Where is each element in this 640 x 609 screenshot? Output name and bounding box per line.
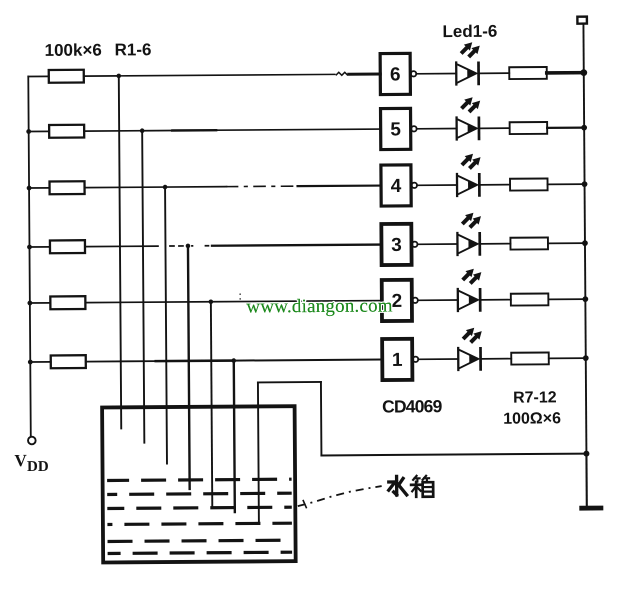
svg-text:V: V <box>14 451 27 470</box>
label gate number 4 <box>391 176 402 197</box>
wire rail to R4 <box>29 246 49 248</box>
tick on leader <box>303 501 306 508</box>
resistor R4 <box>50 240 85 253</box>
inverter U2 output bubble <box>412 298 417 303</box>
wire Led2 to R8 <box>480 127 509 129</box>
wire probe node to inverter 2 <box>211 301 382 302</box>
wire R9 to ground rail <box>548 183 585 185</box>
inverter U4 output bubble <box>412 183 417 188</box>
svg-text:DD: DD <box>27 459 49 475</box>
probe wire P4 (into tank) <box>188 246 190 489</box>
svg-text:100Ω×6: 100Ω×6 <box>503 410 561 427</box>
wire inverter 1 to Led6 <box>418 358 458 360</box>
label 100k x6 R1-6 <box>45 40 152 60</box>
wire probe node to inverter 1 <box>234 360 382 361</box>
wire R5 to probe node <box>85 301 210 304</box>
inverter U6 (CD4069 gate box 6) <box>380 53 410 94</box>
node probe2 junction <box>140 128 145 133</box>
inverter U6 output bubble <box>411 71 416 76</box>
junction left-rail row4 <box>27 245 32 250</box>
wire rail to R6 <box>30 361 50 363</box>
junction left-rail row6 <box>28 360 33 365</box>
label CD4069 <box>382 396 443 416</box>
wire R2 to probe node <box>84 130 142 132</box>
svg-text:www.diangon.com: www.diangon.com <box>246 295 393 317</box>
inverter U1 (CD4069 gate box 1) <box>382 339 412 380</box>
label 100ohm x6 <box>503 410 561 427</box>
node probe3 junction <box>163 185 168 190</box>
water tank outline <box>102 406 296 562</box>
resistor R5 <box>50 296 85 309</box>
wire Led1 to R7 <box>480 72 509 74</box>
junction right-rail row2 <box>581 125 587 131</box>
svg-text:6: 6 <box>390 64 401 85</box>
resistor R9 <box>510 178 548 190</box>
wire inverter 5 to Led2 <box>417 128 457 130</box>
LED Led1 <box>456 42 480 84</box>
wire Led5 to R11 <box>482 299 511 301</box>
label R7-12 <box>513 389 557 406</box>
probe wire P6 (into tank) <box>234 361 235 512</box>
resistor R7 <box>509 67 547 79</box>
wire probe node to inverter 5 <box>142 129 380 131</box>
probe wire P3 (into tank) <box>165 187 167 463</box>
svg-text:3: 3 <box>391 235 402 256</box>
wire R1 to probe node <box>84 75 119 77</box>
inverter U1 output bubble <box>413 357 418 362</box>
junction left-rail row5 <box>27 301 32 306</box>
wire R11 to ground rail <box>548 298 585 300</box>
inverter U5 (CD4069 gate box 5) <box>381 108 411 149</box>
resistor R6 <box>51 355 86 368</box>
svg-text:Led1-6: Led1-6 <box>442 22 497 41</box>
svg-text:5: 5 <box>390 119 401 140</box>
label VDD <box>14 451 48 475</box>
resistor R10 <box>510 237 548 249</box>
wire rail to R5 <box>30 302 50 304</box>
probe wire P1 (into tank) <box>119 76 121 428</box>
wire inverter 6 to Led1 <box>416 73 456 75</box>
LED Led5 <box>458 269 482 311</box>
resistor R11 <box>511 293 549 305</box>
ground symbol <box>579 506 603 511</box>
probe wire P2 (into tank) <box>142 131 144 443</box>
probe wire P5 (into tank) <box>211 302 212 507</box>
wire Led3 to R9 <box>481 184 510 186</box>
inverter U3 output bubble <box>412 242 417 247</box>
resistor R8 <box>510 122 548 134</box>
wire R4 to probe node <box>85 245 184 248</box>
wire rail to R3 <box>29 187 49 189</box>
wire right ground rail (vertical) <box>583 24 586 454</box>
inverter U5 output bubble <box>411 126 416 131</box>
svg-text:100k×6: 100k×6 <box>45 40 102 59</box>
wire R7 to ground rail <box>547 71 584 75</box>
leader line (dash-dot) to tank label <box>298 486 382 506</box>
junction left-rail row3 <box>27 186 32 191</box>
inverter U3 (CD4069 gate box 3) <box>381 224 411 265</box>
wire Led4 to R10 <box>481 243 510 245</box>
node probe5 junction <box>209 299 214 304</box>
svg-text::: : <box>238 288 242 303</box>
wire common-probe link <box>258 380 587 456</box>
wire rail to R1 <box>28 75 48 77</box>
probe wire common (deep probe) <box>257 382 260 522</box>
inverter U2 (CD4069 gate box 2) <box>382 280 412 321</box>
LED Led4 <box>457 213 481 255</box>
resistor R3 <box>50 181 85 194</box>
node probe4 junction <box>186 244 191 249</box>
svg-text:1: 1 <box>392 350 403 371</box>
resistor R1 <box>49 70 84 83</box>
wire R6 to probe node <box>86 361 234 362</box>
label Led1-6 <box>442 22 497 41</box>
label gate number 5 <box>390 119 401 140</box>
wire rail to ground symbol <box>585 454 587 506</box>
svg-text:CD4069: CD4069 <box>382 396 443 416</box>
junction right-rail row3 <box>582 181 588 187</box>
svg-text:2: 2 <box>391 291 402 312</box>
resistor R12 <box>511 352 549 364</box>
stray colon mark <box>238 288 242 303</box>
wire R3 to probe node <box>85 186 165 189</box>
LED Led2 <box>456 97 480 139</box>
wire left VDD bus (vertical rail) <box>28 77 31 436</box>
wire inverter 3 to Led4 <box>417 243 457 245</box>
wire R8 to ground rail <box>547 127 584 129</box>
watermark www.diangon.com <box>246 295 393 317</box>
wire R12 to ground rail <box>549 357 586 359</box>
junction right-rail row4 <box>582 240 588 246</box>
resistor R2 <box>49 125 84 138</box>
terminal antenna (top right) <box>577 17 587 24</box>
inverter U4 (CD4069 gate box 4) <box>381 165 411 206</box>
wire inverter 2 to Led5 <box>418 299 458 301</box>
label gate number 3 <box>391 235 402 256</box>
wire probe node to inverter 6 <box>119 72 381 77</box>
svg-text:4: 4 <box>391 176 402 197</box>
label gate number 6 <box>390 64 401 85</box>
label gate number 1 <box>392 350 403 371</box>
LED Led6 <box>458 328 482 370</box>
junction right-rail row5 <box>582 296 588 302</box>
svg-text:R1-6: R1-6 <box>115 40 152 59</box>
wire Led6 to R12 <box>482 358 511 360</box>
LED Led3 <box>457 154 481 196</box>
junction right-rail row6 <box>583 355 589 361</box>
label tank (shui xiang) <box>387 476 433 497</box>
node probe1 junction <box>116 74 121 79</box>
terminal VDD (open circle) <box>28 437 36 445</box>
label gate number 2 <box>391 291 402 312</box>
wire probe node to inverter 3 <box>192 245 381 246</box>
junction rail-common <box>583 451 589 457</box>
water level dashes <box>107 479 292 553</box>
junction left-rail row2 <box>26 129 31 134</box>
wire probe node to inverter 4 <box>165 186 381 188</box>
wire rail to R2 <box>29 130 49 132</box>
svg-text:R7-12: R7-12 <box>513 389 557 406</box>
wire inverter 4 to Led3 <box>417 184 457 186</box>
wire R10 to ground rail <box>548 242 585 244</box>
junction right-rail row1 <box>580 69 587 76</box>
node probe6 junction <box>231 358 236 363</box>
